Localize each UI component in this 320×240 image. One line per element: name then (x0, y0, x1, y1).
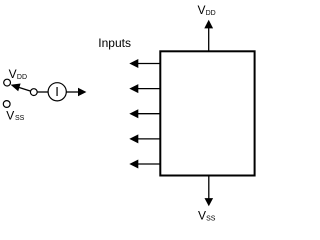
wire pivot to current source (37, 91, 49, 93)
current source I1 (48, 83, 66, 101)
wire input 5 (138, 163, 160, 165)
wire current source output (66, 91, 79, 93)
svg-text:SS: SS (206, 216, 216, 223)
wire VSS stem (208, 176, 210, 200)
switch SW1 arrowhead (to VDD) (11, 84, 21, 92)
wire VDD stem (208, 28, 210, 52)
switch SW1 blade wire (19, 87, 31, 91)
svg-text:V: V (198, 3, 206, 17)
arrowhead VSS (down) (205, 198, 214, 206)
wire input 3 (138, 113, 160, 115)
device box U1 (160, 51, 254, 175)
node VSS terminal (3, 101, 10, 108)
arrowhead output (right) (78, 88, 86, 97)
svg-text:I: I (55, 84, 59, 99)
svg-text:SS: SS (15, 115, 25, 122)
svg-text:V: V (6, 108, 14, 122)
arrowhead input 3 (129, 109, 138, 118)
svg-text:V: V (198, 209, 206, 223)
switch SW1 pivot node (30, 89, 37, 96)
svg-text:V: V (9, 67, 17, 81)
arrowhead input 2 (129, 84, 138, 93)
svg-text:Inputs: Inputs (98, 36, 131, 50)
arrowhead input 1 (129, 59, 138, 68)
arrowhead input 5 (129, 160, 138, 169)
wire input 2 (138, 88, 160, 90)
node VDD terminal (4, 79, 11, 86)
wire input 4 (138, 138, 160, 140)
svg-text:DD: DD (17, 74, 27, 81)
arrowhead VDD (up) (204, 20, 213, 29)
wire input 1 (138, 63, 160, 65)
arrowhead input 4 (129, 134, 138, 143)
svg-text:DD: DD (206, 10, 216, 17)
